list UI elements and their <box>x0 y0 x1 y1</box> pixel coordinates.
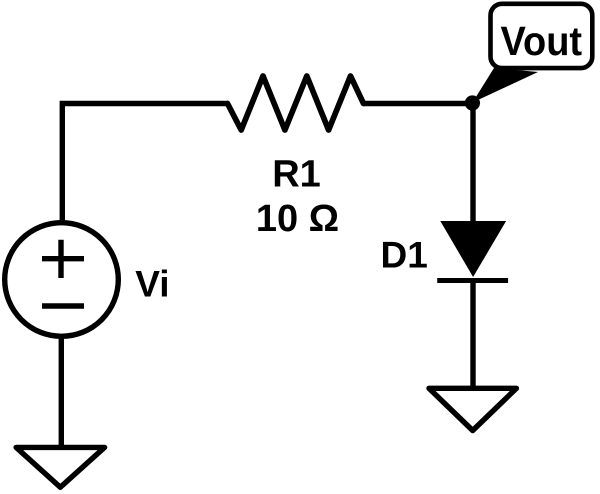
wire from node to diode D1 <box>470 103 475 225</box>
voltage source Vi <box>5 223 119 337</box>
Vout callout box <box>491 4 593 68</box>
svg-text:Vout: Vout <box>501 19 583 65</box>
ground under diode D1 <box>429 388 516 430</box>
ground under Vi <box>16 447 105 487</box>
resistor R1 <box>228 76 364 130</box>
svg-text:10 Ω: 10 Ω <box>256 198 339 240</box>
wire from diode D1 to ground <box>470 281 475 389</box>
wire from Vi bottom to ground <box>59 337 64 447</box>
wire from Vi top to resistor R1 left terminal <box>62 104 227 223</box>
diode D1 <box>437 221 508 281</box>
svg-text:Vi: Vi <box>135 264 169 305</box>
svg-text:D1: D1 <box>381 234 428 275</box>
wire from resistor R1 to node Vout <box>364 101 473 106</box>
Vout callout tail <box>473 68 539 103</box>
node junction dot <box>465 95 480 110</box>
svg-text:R1: R1 <box>272 154 321 196</box>
